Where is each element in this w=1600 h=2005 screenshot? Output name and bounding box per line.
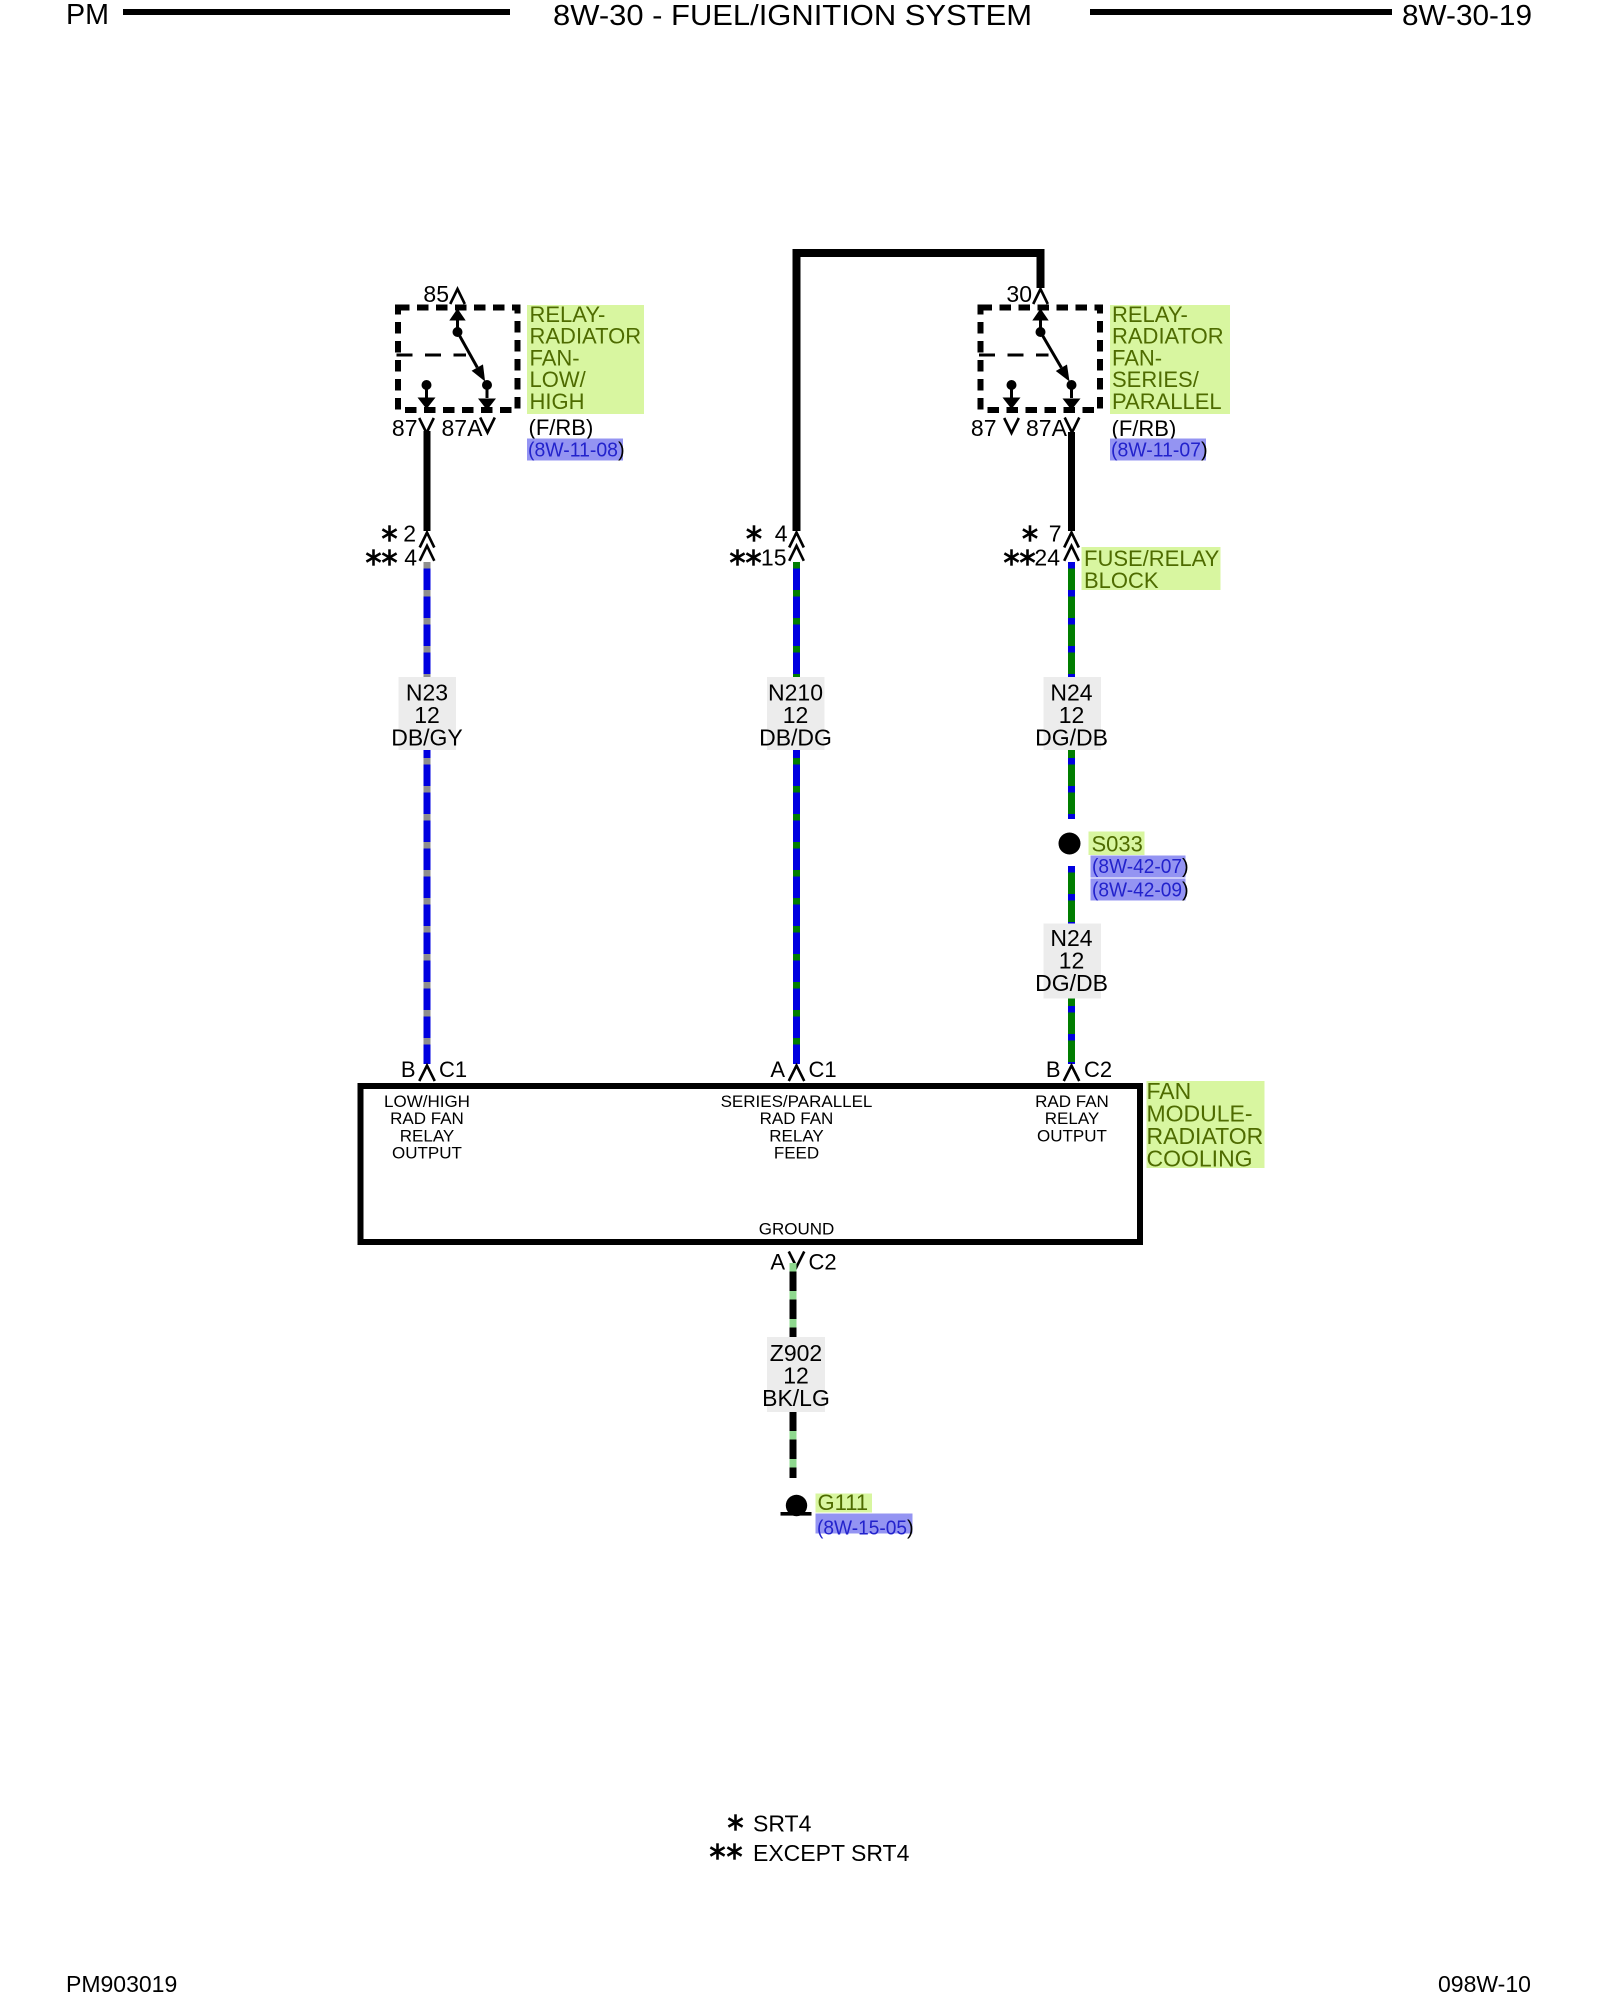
svg-text:85: 85: [423, 281, 449, 307]
svg-text:87: 87: [971, 415, 997, 441]
connector left pin 4 (except SRT4): [372, 549, 375, 565]
svg-text:8W-30-19: 8W-30-19: [1402, 0, 1532, 32]
svg-text:): ): [1182, 856, 1189, 878]
svg-text:B: B: [1046, 1057, 1061, 1082]
svg-text:DB/DG: DB/DG: [759, 725, 832, 751]
svg-text:87: 87: [392, 415, 418, 441]
svg-text:87A: 87A: [1026, 415, 1068, 441]
header rule right: [1090, 9, 1392, 15]
relay radiator fan low/high pin 87 contact: [422, 380, 432, 390]
svg-text:DG/DB: DG/DB: [1035, 970, 1108, 996]
connector middle pin 15 (except SRT4): [736, 549, 739, 565]
svg-text:OUTPUT: OUTPUT: [392, 1144, 462, 1163]
svg-text:OUTPUT: OUTPUT: [1037, 1126, 1107, 1145]
relay radiator fan series/parallel case: [981, 308, 1101, 411]
label N24 12 DG/DB upper: [1044, 677, 1102, 750]
svg-text:098W-10: 098W-10: [1438, 1971, 1531, 1997]
wire left relay 87 output: [424, 431, 431, 531]
footnote EXCEPT SRT4: [716, 1843, 719, 1859]
svg-text:(8W-15-05: (8W-15-05: [817, 1518, 907, 1540]
svg-text:COOLING: COOLING: [1147, 1146, 1253, 1172]
label G111: [816, 1494, 873, 1513]
svg-text:7: 7: [1049, 521, 1062, 547]
svg-text:SERIES/PARALLEL: SERIES/PARALLEL: [721, 1092, 873, 1111]
wire N23 (DB/GY): [424, 562, 431, 1064]
relay radiator fan low/high coil bar: [397, 354, 467, 357]
svg-text:RELAY: RELAY: [1045, 1109, 1100, 1128]
svg-text:RAD FAN: RAD FAN: [760, 1109, 834, 1128]
connector middle pin 4 (SRT4): [753, 525, 756, 541]
svg-text:87A: 87A: [442, 415, 484, 441]
svg-text:DG/DB: DG/DB: [1035, 725, 1108, 751]
svg-text:(F/RB): (F/RB): [529, 415, 594, 440]
svg-text:30: 30: [1006, 281, 1032, 307]
wire N24 lower (DG/DB): [1068, 866, 1075, 1064]
wire top horizontal feed: [793, 249, 1045, 257]
relay radiator fan low/high movable contact: [458, 332, 478, 368]
connector right pin 7 (SRT4): [1029, 525, 1032, 541]
svg-text:DB/GY: DB/GY: [391, 725, 463, 751]
svg-text:RELAY: RELAY: [400, 1126, 455, 1145]
svg-text:(F/RB): (F/RB): [1112, 416, 1177, 441]
relay radiator fan series/parallel pin 87A contact: [1067, 380, 1077, 390]
svg-text:FEED: FEED: [774, 1144, 819, 1163]
svg-text:(8W-11-07: (8W-11-07: [1111, 440, 1201, 462]
svg-text:PM: PM: [66, 0, 109, 31]
label RELAY-RADIATOR FAN-SERIES/PARALLEL: [1110, 305, 1230, 414]
wire stub to relay pin 30: [1037, 253, 1045, 288]
svg-text:(8W-42-07: (8W-42-07: [1092, 856, 1182, 878]
svg-text:24: 24: [1034, 545, 1060, 571]
svg-text:BLOCK: BLOCK: [1084, 568, 1159, 593]
wire N210 (DB/DG): [793, 562, 800, 1064]
link (8W-15-05): [816, 1514, 913, 1534]
wire Z902 (BK/LG): [790, 1263, 797, 1478]
relay radiator fan low/high case: [398, 308, 518, 411]
svg-text:EXCEPT SRT4: EXCEPT SRT4: [753, 1840, 910, 1866]
label FAN MODULE-RADIATOR COOLING: [1147, 1081, 1265, 1168]
link (8W-42-07): [1091, 856, 1186, 878]
svg-text:BK/LG: BK/LG: [762, 1385, 830, 1411]
svg-text:C2: C2: [1084, 1057, 1112, 1082]
svg-text:C1: C1: [439, 1057, 467, 1082]
svg-text:A: A: [770, 1057, 785, 1082]
svg-text:4: 4: [404, 545, 417, 571]
svg-text:C1: C1: [809, 1057, 837, 1082]
label FUSE/RELAY BLOCK: [1082, 547, 1221, 590]
relay radiator fan low/high pin 87A contact: [482, 380, 492, 390]
ground G111 symbol: [786, 1495, 807, 1516]
svg-text:C2: C2: [809, 1250, 837, 1275]
label Z902 12 BK/LG: [767, 1337, 825, 1412]
svg-text:G111: G111: [818, 1490, 869, 1515]
svg-text:8W-30 - FUEL/IGNITION SYSTEM: 8W-30 - FUEL/IGNITION SYSTEM: [553, 0, 1032, 32]
label N210 12 DB/DG: [767, 677, 825, 750]
svg-text:2: 2: [403, 521, 416, 547]
svg-text:RELAY: RELAY: [769, 1126, 824, 1145]
svg-text:): ): [618, 440, 625, 462]
splice S033: [1059, 833, 1081, 855]
svg-text:(8W-11-08: (8W-11-08: [528, 440, 618, 462]
svg-text:(8W-42-09: (8W-42-09: [1092, 880, 1182, 902]
svg-text:LOW/HIGH: LOW/HIGH: [384, 1092, 470, 1111]
svg-text:RAD FAN: RAD FAN: [390, 1109, 464, 1128]
header rule left: [123, 9, 510, 15]
svg-text:GROUND: GROUND: [759, 1220, 835, 1239]
svg-text:): ): [1201, 440, 1208, 462]
footnote SRT4: [734, 1814, 737, 1830]
relay radiator fan low/high common contact arrow: [456, 316, 459, 331]
svg-text:PARALLEL: PARALLEL: [1112, 389, 1222, 414]
svg-text:PM903019: PM903019: [66, 1971, 177, 1997]
relay radiator fan series/parallel common contact arrow: [1039, 316, 1042, 331]
svg-text:4: 4: [775, 521, 788, 547]
fan module box: [361, 1086, 1141, 1242]
label N24 12 DG/DB lower: [1044, 924, 1102, 999]
label N23 12 DB/GY: [399, 677, 457, 750]
link (8W-11-08): [527, 439, 623, 461]
link (8W-11-07): [1110, 439, 1206, 461]
svg-text:B: B: [401, 1057, 416, 1082]
label RELAY-RADIATOR FAN-LOW/HIGH: [527, 305, 644, 414]
svg-text:S033: S033: [1092, 832, 1143, 857]
wire middle vertical feed: [793, 253, 801, 531]
wire right relay 87A output: [1068, 432, 1075, 531]
svg-text:SRT4: SRT4: [753, 1811, 812, 1837]
relay radiator fan series/parallel coil bar: [979, 354, 1049, 357]
svg-text:15: 15: [761, 545, 787, 571]
connector left pin 2 (SRT4): [388, 525, 391, 541]
label S033: [1089, 832, 1145, 856]
relay radiator fan series/parallel pin 87 contact: [1007, 380, 1017, 390]
relay radiator fan series/parallel movable contact: [1041, 332, 1062, 368]
wire N24 upper (DG/DB): [1068, 562, 1075, 819]
svg-text:): ): [907, 1518, 914, 1540]
svg-text:HIGH: HIGH: [530, 389, 585, 414]
svg-text:RAD FAN: RAD FAN: [1035, 1092, 1109, 1111]
svg-text:A: A: [770, 1250, 785, 1275]
connector right pin 24 (except SRT4): [1010, 549, 1013, 565]
svg-text:): ): [1182, 880, 1189, 902]
link (8W-42-09): [1091, 879, 1186, 901]
